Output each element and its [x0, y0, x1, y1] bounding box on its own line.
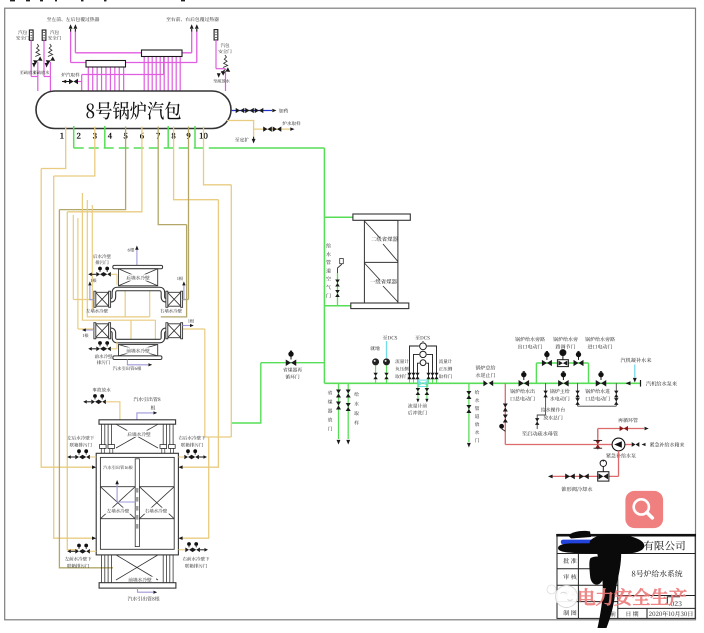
steam outlet stub top [137, 413, 153, 420]
water wall supply jogs upper [124, 291, 126, 317]
rear wall lower loop pipe [110, 289, 166, 300]
svg-text:锅炉给水旁: 锅炉给水旁 [553, 336, 578, 343]
front wall bottom header [113, 356, 162, 360]
svg-text:至疏放水: 至疏放水 [213, 79, 231, 85]
water wall supply jogs lower [130, 320, 132, 339]
red magnifier icon [625, 491, 663, 528]
svg-text:取样门: 取样门 [395, 374, 409, 380]
svg-text:左墙水冷壁: 左墙水冷壁 [86, 309, 109, 315]
feedwater drops from drum [73, 126, 75, 148]
relief valve 1 [35, 44, 40, 57]
front wall blowdown valves [98, 341, 102, 345]
front wall X panel bottom [116, 555, 158, 580]
svg-text:取样门: 取样门 [439, 374, 453, 380]
furnace outer shell [96, 453, 178, 555]
feedwater sampling branch [347, 383, 349, 439]
svg-text:水: 水 [354, 401, 359, 408]
front wall upper loop pipe [110, 330, 166, 341]
black marker horizontal scribble [558, 543, 643, 554]
bypass outlet motor valve [542, 360, 547, 366]
inner left feed b [87, 200, 149, 317]
downcomer left main 4 [67, 212, 78, 550]
svg-text:给: 给 [326, 243, 331, 250]
svg-text:批 准: 批 准 [563, 556, 577, 565]
front wall panel [119, 345, 158, 356]
svg-text:锅炉给水进: 锅炉给水进 [585, 388, 610, 395]
left wall heat exchanger box lower [96, 324, 109, 338]
left wall heat exchanger box upper [96, 292, 109, 306]
steam outlet stub bottom [138, 588, 154, 592]
superheater supply headers wiring [71, 62, 197, 64]
svg-text:左前水冷壁下: 左前水冷壁下 [65, 556, 92, 562]
svg-text:流量计前: 流量计前 [408, 403, 427, 410]
svg-text:至右前、右后包覆过热器: 至右前、右后包覆过热器 [166, 16, 219, 23]
svg-text:流量计: 流量计 [439, 359, 453, 365]
header H1 riser tubes [87, 67, 89, 91]
svg-text:至启动疏水母管: 至启动疏水母管 [522, 431, 558, 438]
svg-text:后墙水冷壁: 后墙水冷壁 [127, 432, 151, 438]
svg-text:出口电动门: 出口电动门 [517, 344, 542, 351]
svg-text:门: 门 [475, 437, 480, 444]
rear wall hatch tubes left [101, 424, 103, 449]
superheater header H2 [142, 50, 183, 57]
svg-text:1根: 1根 [82, 333, 89, 339]
svg-text:门: 门 [326, 292, 331, 299]
svg-text:紧急补给水泵: 紧急补给水泵 [606, 453, 636, 460]
feedwater outlet motor valve [519, 380, 524, 387]
svg-text:放: 放 [328, 417, 333, 424]
svg-text:放水总门: 放水总门 [543, 414, 563, 421]
svg-text:锅炉给水旁路: 锅炉给水旁路 [515, 336, 545, 343]
division wall panel [135, 459, 139, 547]
svg-text:紧急补给水箱来: 紧急补给水箱来 [649, 442, 684, 449]
downcomer 8 drop [174, 127, 219, 200]
svg-text:省: 省 [328, 390, 333, 397]
downcomer 9 drop [188, 127, 190, 300]
left box feed upper assembly [73, 299, 94, 301]
svg-text:水电动门: 水电动门 [550, 395, 570, 402]
svg-text:进口电动门: 进口电动门 [587, 344, 612, 351]
svg-text:门: 门 [328, 426, 333, 433]
recirculation pipe [597, 429, 599, 439]
svg-text:至DCS: 至DCS [383, 334, 398, 341]
steam drum 8号锅炉汽包 [36, 91, 231, 129]
main line inlet arrow and label [626, 381, 631, 385]
svg-text:给: 给 [475, 389, 480, 396]
svg-text:一级省煤器: 一级省煤器 [370, 278, 398, 286]
svg-text:炉汽取样: 炉汽取样 [61, 72, 80, 78]
svg-text:就地: 就地 [370, 345, 380, 352]
svg-text:水逆止门: 水逆止门 [475, 372, 495, 379]
svg-text:8号锅炉汽包: 8号锅炉汽包 [85, 97, 181, 125]
svg-text:日 期: 日 期 [625, 609, 638, 618]
flow orifice [418, 380, 423, 386]
svg-text:给水操作台: 给水操作台 [541, 407, 566, 414]
emergency feedwater pump [612, 438, 625, 451]
svg-text:2: 2 [77, 131, 82, 142]
feedwater header to economizer [215, 147, 324, 149]
right wall heat exchanger box upper [168, 292, 181, 306]
svg-text:前墙水冷壁: 前墙水冷壁 [126, 349, 150, 355]
svg-text:联箱排污门: 联箱排污门 [70, 443, 93, 449]
downcomer 6 drop [67, 127, 142, 212]
economizer recirculation line [261, 362, 325, 364]
drum safety valve 1 [29, 30, 33, 40]
inner left feed c [92, 205, 94, 309]
svg-text:排污门: 排污门 [97, 360, 111, 366]
svg-text:2020年10月30日: 2020年10月30日 [649, 609, 694, 618]
cone valve cooling water line [618, 451, 620, 477]
svg-text:至定扩: 至定扩 [235, 136, 250, 143]
svg-text:至DCS: 至DCS [415, 334, 430, 341]
downcomer right main 2 [183, 200, 219, 468]
cone valve cooling isolation valves [579, 474, 584, 480]
svg-text:锅炉总给: 锅炉总给 [475, 365, 495, 372]
startup drain line [504, 383, 506, 444]
svg-text:有限公司: 有限公司 [643, 539, 685, 554]
furnace side inlet arrows [92, 465, 96, 469]
economizer feed riser [323, 148, 325, 383]
svg-text:左后水冷壁下: 左后水冷壁下 [67, 435, 94, 441]
svg-text:联箱排污门: 联箱排污门 [185, 563, 208, 569]
bypass line [536, 362, 588, 364]
relief valve 2 [48, 44, 53, 57]
svg-text:6根: 6根 [128, 247, 135, 253]
left box feed lower assembly [78, 328, 94, 330]
pipe to right enclosure superheaters [191, 31, 193, 53]
svg-text:1根: 1根 [188, 319, 195, 325]
header H2 riser tubes [143, 57, 145, 92]
economizer recirculation valve [286, 359, 291, 366]
downcomer right main 1 [161, 225, 187, 317]
svg-text:器: 器 [328, 408, 333, 415]
svg-text:联箱排污门: 联箱排污门 [67, 563, 90, 569]
rear wall X panel top [116, 424, 158, 448]
front wall hatch tubes bottom [101, 555, 103, 583]
recirculation valve to pump line [597, 429, 599, 450]
svg-text:1根: 1根 [177, 276, 184, 282]
economizer body [364, 220, 398, 303]
main feedwater motor valve [558, 380, 563, 387]
feedwater inlet motor valve [596, 380, 601, 387]
svg-text:排污门: 排污门 [95, 260, 109, 266]
blue marker stroke [561, 540, 620, 545]
svg-text:道: 道 [326, 267, 331, 274]
operating desk drain header [577, 383, 579, 406]
relief valve riser C [225, 71, 227, 91]
svg-text:锅炉给水出: 锅炉给水出 [510, 388, 535, 395]
svg-text:安全门: 安全门 [218, 49, 232, 55]
svg-text:右前水冷壁下: 右前水冷壁下 [183, 556, 210, 562]
header bolt plates [100, 445, 107, 449]
svg-text:水: 水 [475, 429, 480, 436]
svg-text:正压侧: 正压侧 [439, 367, 453, 373]
dosing line 加药 [231, 110, 268, 112]
emergency feed pump suction [598, 444, 612, 446]
svg-text:路调节门: 路调节门 [555, 344, 575, 351]
furnace inner shell [100, 457, 174, 549]
svg-text:1根: 1根 [90, 278, 97, 284]
downcomer left main 2 [54, 176, 92, 538]
right wall X panel [139, 487, 174, 519]
svg-text:汽机凝补水来: 汽机凝补水来 [620, 357, 652, 364]
downcomer 1 drop [41, 127, 65, 169]
svg-text:锥形阀冷却水: 锥形阀冷却水 [561, 486, 593, 493]
downcomer 7 drop [158, 127, 186, 225]
svg-text:口总电动门: 口总电动门 [585, 395, 610, 402]
svg-text:1: 1 [60, 131, 64, 142]
furnace top header [99, 420, 176, 424]
inner left feed a [82, 193, 155, 320]
economizer inlet branch [324, 216, 353, 218]
economizer drain branch [338, 383, 340, 439]
rear wall panel [119, 269, 158, 286]
rear wall hatch tubes right [162, 424, 164, 449]
steam sampling pipe [82, 74, 164, 76]
svg-text:放: 放 [475, 421, 480, 428]
svg-text:给: 给 [354, 391, 359, 398]
relief valve riser B [49, 62, 51, 91]
svg-text:取: 取 [354, 410, 359, 417]
svg-text:至疏放水: 至疏放水 [33, 70, 51, 76]
black marker vertical scribble [596, 548, 621, 628]
svg-text:炉水取样: 炉水取样 [282, 121, 301, 127]
drum safety valve 2 [42, 30, 46, 40]
downcomer 3 drop [54, 127, 95, 177]
svg-text:汽机给水泵来: 汽机给水泵来 [646, 380, 678, 387]
bypass control valve [557, 360, 568, 367]
svg-text:管: 管 [326, 259, 331, 266]
svg-text:右后水冷壁下: 右后水冷壁下 [179, 435, 206, 441]
svg-text:汽水引出管8根: 汽水引出管8根 [128, 596, 160, 603]
svg-text:事故放水: 事故放水 [92, 388, 111, 394]
cone valve cooling control valve [598, 472, 609, 481]
cropped title text remnants at top [10, 0, 15, 1]
pipe to left enclosure superheaters [70, 31, 72, 63]
svg-text:水: 水 [326, 251, 331, 258]
flow meter flushing valves [417, 383, 419, 398]
downcomer left main 1 [41, 169, 92, 468]
feedwater header dashed [74, 147, 215, 149]
svg-text:加药: 加药 [279, 107, 289, 114]
svg-text:流量计: 流量计 [395, 359, 409, 365]
downcomer 9 link [183, 299, 189, 301]
steam outlet 6根 lower [127, 360, 148, 365]
left front lower header blowdown [77, 544, 81, 548]
svg-text:汽水引出管6根: 汽水引出管6根 [113, 366, 142, 372]
title block table [557, 535, 695, 618]
from emergency makeup tank [632, 442, 636, 447]
svg-text:电力安全生产: 电力安全生产 [577, 584, 687, 610]
svg-text:右墙水冷壁: 右墙水冷壁 [160, 309, 183, 315]
svg-text:安全门: 安全门 [16, 36, 30, 42]
right lower feed [183, 437, 209, 538]
furnace bottom header [99, 583, 176, 588]
right front lower header blowdown [187, 542, 191, 546]
svg-text:左墙水冷壁: 左墙水冷壁 [107, 509, 130, 515]
svg-text:安全门: 安全门 [48, 36, 62, 42]
svg-text:煤: 煤 [328, 399, 333, 406]
lower right 1根 stub [183, 325, 190, 327]
svg-text:联箱排污门: 联箱排污门 [181, 443, 204, 449]
drum safety valve 3 right [214, 30, 218, 40]
boiler water sample line [227, 121, 254, 137]
superheater header H1 [86, 61, 126, 68]
downcomer 5 drop [59, 127, 125, 210]
svg-text:样: 样 [354, 420, 359, 427]
svg-text:管: 管 [475, 405, 480, 412]
main feedwater line [324, 382, 640, 384]
left wall X panel [100, 487, 135, 519]
economizer top header [353, 214, 410, 220]
flow meter plus side valves [428, 371, 430, 379]
downcomer right main 3 [230, 185, 232, 437]
svg-text:至左前、左后包覆过热器: 至左前、左后包覆过热器 [47, 16, 100, 23]
relief valve riser A [37, 62, 39, 91]
svg-text:后墙水冷壁: 后墙水冷壁 [126, 276, 150, 282]
svg-text:4: 4 [108, 131, 113, 142]
svg-text:后冲洗门: 后冲洗门 [408, 410, 427, 417]
svg-text:空: 空 [326, 276, 331, 283]
lower left 1根 stub [86, 329, 95, 331]
svg-text:负压侧: 负压侧 [395, 367, 409, 373]
svg-text:制 图: 制 图 [563, 608, 577, 617]
rear wall top header [113, 265, 163, 268]
svg-text:汽水引出管16根: 汽水引出管16根 [103, 465, 133, 471]
upper right 1根 stub [183, 285, 184, 300]
svg-text:二级省煤器: 二级省煤器 [371, 235, 399, 243]
division wall feed purple [117, 484, 135, 502]
flow meter minus side valves [409, 371, 411, 379]
svg-text:道: 道 [475, 413, 480, 420]
svg-text:锅炉给水旁路: 锅炉给水旁路 [585, 336, 615, 343]
svg-text:省煤器再: 省煤器再 [283, 367, 302, 374]
svg-text:口总电动门: 口总电动门 [510, 395, 535, 402]
svg-text:循环门: 循环门 [285, 374, 300, 381]
right collect header [205, 436, 232, 438]
feedwater pipe drain branch [468, 383, 470, 442]
relief valve 3 [223, 55, 228, 68]
svg-text:再循环管: 再循环管 [618, 417, 638, 424]
right wall heat exchanger box lower [168, 324, 181, 338]
svg-text:审 核: 审 核 [563, 572, 577, 581]
economizer outlet branch [324, 305, 350, 307]
svg-text:8号炉给水系统: 8号炉给水系统 [631, 569, 682, 580]
svg-text:汽水引出管8: 汽水引出管8 [133, 396, 160, 403]
svg-text:锅炉主给: 锅炉主给 [550, 388, 570, 395]
svg-text:水: 水 [475, 397, 480, 404]
svg-text:气: 气 [326, 284, 331, 291]
watermark logo circle [556, 586, 578, 608]
bypass risers [535, 363, 537, 383]
operating desk drain valve branch [537, 383, 545, 429]
downcomer left main 3 [59, 210, 113, 568]
upper left 1根 stub [90, 285, 94, 300]
economizer bottom header [351, 303, 409, 309]
svg-text:右墙水冷壁: 右墙水冷壁 [145, 509, 168, 515]
right assembly link upper [204, 329, 206, 437]
svg-text:根: 根 [151, 405, 156, 412]
downcomer 10 drop [204, 127, 232, 185]
bypass inlet motor valve [574, 360, 579, 366]
feedwater pipe air valve [337, 273, 339, 306]
